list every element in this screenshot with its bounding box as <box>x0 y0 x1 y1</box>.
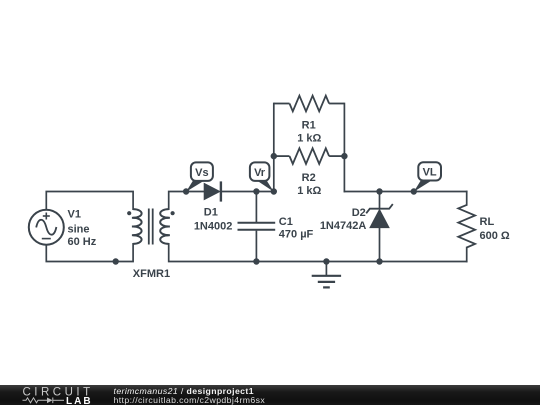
svg-text:Vr: Vr <box>254 167 266 179</box>
V1 value labels <box>68 209 97 248</box>
ground <box>312 262 341 288</box>
svg-text:1N4742A: 1N4742A <box>320 220 367 232</box>
wire secondary top lead <box>169 192 205 210</box>
voltage source V1 <box>29 210 64 245</box>
node junction dot ground <box>323 258 329 264</box>
wire top rail primary <box>46 192 133 210</box>
wire R network left vertical <box>273 104 275 192</box>
node junction dot R2 left <box>271 153 277 159</box>
R2 value labels <box>297 172 321 197</box>
node junction dot C1 bottom <box>253 258 259 264</box>
zener diode D2 <box>366 192 393 262</box>
D2 value labels <box>320 207 367 232</box>
node junction dot C1 top <box>253 188 259 194</box>
svg-text:VL: VL <box>423 167 437 179</box>
resistor R2 <box>274 148 345 164</box>
RL value labels <box>480 216 510 242</box>
svg-text:600 Ω: 600 Ω <box>480 230 510 242</box>
svg-text:LAB: LAB <box>66 396 93 405</box>
wire top rail right <box>344 191 466 193</box>
C1 value labels <box>279 216 314 240</box>
R1 value labels <box>297 120 321 145</box>
footer bar <box>0 385 540 405</box>
capacitor C1 <box>238 192 276 262</box>
svg-text:D2: D2 <box>352 207 366 219</box>
wire bottom rail primary <box>46 244 133 262</box>
svg-text:XFMR1: XFMR1 <box>133 268 170 280</box>
node junction dot Vr <box>271 188 277 194</box>
node junction dot D2 top <box>376 188 382 194</box>
transformer XFMR1 <box>127 209 175 245</box>
wire R network right vertical <box>343 104 345 192</box>
svg-text:R1: R1 <box>302 120 316 132</box>
svg-text:1 kΩ: 1 kΩ <box>297 185 321 197</box>
probe VL <box>414 162 441 191</box>
node junction dot D2 bottom <box>376 258 382 264</box>
diode D1 <box>204 181 221 201</box>
probe Vs <box>186 162 213 191</box>
CircuitLab logo <box>0 385 110 405</box>
svg-text:C1: C1 <box>279 216 293 228</box>
node junction dot bottom rail primary <box>113 258 119 264</box>
svg-text:V1: V1 <box>68 209 81 221</box>
credit text <box>114 387 266 405</box>
resistor RL <box>458 205 475 248</box>
svg-text:470 µF: 470 µF <box>279 229 314 241</box>
wire RL bottom lead <box>466 248 468 262</box>
svg-text:D1: D1 <box>204 207 218 219</box>
probe Vr <box>250 162 274 191</box>
svg-text:sine: sine <box>68 223 90 235</box>
svg-text:RL: RL <box>480 216 495 228</box>
node junction dot Vs <box>183 188 189 194</box>
node junction dot R2 right <box>341 153 347 159</box>
wire D1 cathode to node Vr <box>222 191 274 193</box>
svg-text:60 Hz: 60 Hz <box>68 236 97 248</box>
wire secondary bottom rail <box>169 244 467 262</box>
svg-text:1N4002: 1N4002 <box>194 221 233 233</box>
svg-text:R2: R2 <box>302 172 316 184</box>
svg-text:Vs: Vs <box>195 167 208 179</box>
svg-text:1 kΩ: 1 kΩ <box>297 133 321 145</box>
resistor R1 <box>274 96 345 112</box>
node junction dot VL <box>411 188 417 194</box>
D1 value labels <box>194 207 233 233</box>
wire RL top lead <box>466 192 468 205</box>
